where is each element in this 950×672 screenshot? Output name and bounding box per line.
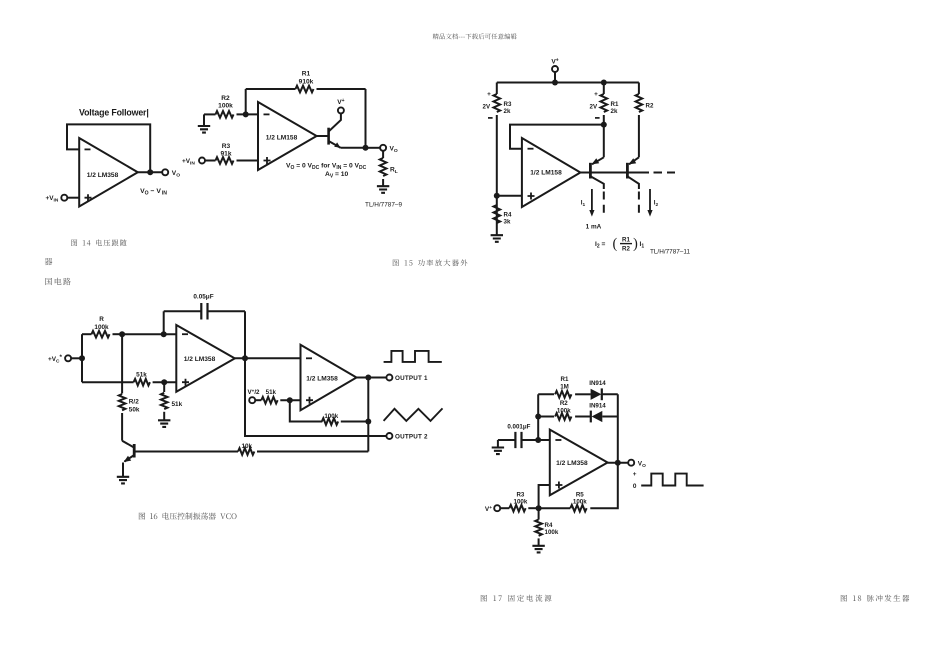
wire VC to divider vertical xyxy=(71,357,82,359)
node rail/R1 junction xyxy=(601,80,607,86)
wire node to inverting input xyxy=(122,333,176,335)
svg-text:TL/H/7787–9: TL/H/7787–9 xyxy=(365,202,402,209)
ground (R4) xyxy=(491,235,503,242)
wire left vertical to inverting node xyxy=(245,89,247,114)
wire + input jog xyxy=(539,485,550,508)
wire cap-left vertical to inverting node xyxy=(163,311,165,334)
caption fig15 图 15 功率放大器外 xyxy=(393,259,468,266)
transistor Q2 (PNP) xyxy=(589,163,592,179)
node output junction xyxy=(615,460,621,466)
svg-text:R3: R3 xyxy=(504,101,512,108)
svg-text:2k: 2k xyxy=(611,108,618,115)
wire feedback to inverting input xyxy=(510,125,604,149)
output terminal VO xyxy=(380,145,386,151)
wire output xyxy=(608,462,629,464)
ground (R2) xyxy=(198,126,210,133)
svg-text:R2: R2 xyxy=(622,246,630,253)
svg-text:100k: 100k xyxy=(573,499,587,506)
op-amp U5 1/2 LM358 (comparator) xyxy=(301,345,357,410)
svg-text:1/2 LM358: 1/2 LM358 xyxy=(184,356,216,363)
svg-text:0.001μF: 0.001μF xyxy=(507,424,530,431)
svg-text:100k: 100k xyxy=(94,324,109,331)
wire cap-right vertical to output xyxy=(244,311,246,358)
output terminal OUTPUT 2 xyxy=(386,433,392,439)
svg-text:100k: 100k xyxy=(218,102,233,109)
caption fig14 line3 国电路 xyxy=(45,278,70,285)
transistor Q1 (NPN buffer) xyxy=(317,135,329,137)
node non-inverting junction xyxy=(494,193,500,199)
node comparator + junction xyxy=(287,397,293,403)
wire V+ to rail xyxy=(554,72,556,83)
wire R1 to feedback node xyxy=(603,115,605,125)
wire cap right xyxy=(208,310,246,312)
wire output to R5 vertical xyxy=(590,463,618,509)
header text 精品文档---下载后可任意编辑 xyxy=(433,33,517,39)
svg-text:3k: 3k xyxy=(504,219,511,226)
svg-text:OUTPUT 2: OUTPUT 2 xyxy=(395,434,428,441)
svg-text:R5: R5 xyxy=(576,492,584,499)
svg-text:+: + xyxy=(633,471,637,478)
svg-text:R/2: R/2 xyxy=(129,399,139,406)
svg-text:100k: 100k xyxy=(324,413,338,420)
wire feedback loop xyxy=(67,124,150,172)
resistor R1 2k xyxy=(603,83,605,95)
wire output1 to output2 vertical xyxy=(245,358,386,436)
caption fig14 line2 器 xyxy=(45,258,53,265)
svg-text:Voltage Follower|: Voltage Follower| xyxy=(79,107,149,117)
resistor R3 2k xyxy=(496,83,498,95)
arrow I2 xyxy=(649,189,651,212)
svg-text:R1: R1 xyxy=(302,71,311,78)
svg-text:R3: R3 xyxy=(222,143,231,150)
svg-text:R1: R1 xyxy=(611,101,619,108)
ground (RL) xyxy=(377,186,389,193)
wire dashed collector I2 xyxy=(638,192,640,218)
wire integrator output xyxy=(235,357,301,359)
node + input junction xyxy=(161,379,167,385)
op-amp U3 1/2 LM158 xyxy=(522,138,581,207)
resistor R4 3k xyxy=(494,205,501,223)
svg-text:1/2 LM158: 1/2 LM158 xyxy=(266,134,298,141)
svg-text:V+/2: V+/2 xyxy=(248,388,261,396)
node feedback junction xyxy=(601,122,607,128)
resistor R4 100k xyxy=(538,508,540,519)
wire to non-inverting input xyxy=(497,195,522,197)
svg-text:R2: R2 xyxy=(221,95,230,102)
wire feedback right vertical xyxy=(365,89,367,148)
svg-text:IN914: IN914 xyxy=(589,402,606,409)
svg-text:2k: 2k xyxy=(504,108,511,115)
wire right feedback vertical xyxy=(617,394,619,462)
wire to inverting input xyxy=(538,439,550,441)
svg-text:R4: R4 xyxy=(545,522,553,529)
wire emitter to output node xyxy=(341,147,366,149)
caption fig16 图 16 电压控制振荡器 VCO xyxy=(139,512,237,519)
svg-text:50k: 50k xyxy=(129,407,140,414)
node integrator output junction xyxy=(242,355,248,361)
resistor 10k (base drive) xyxy=(134,451,238,453)
wire left rail down xyxy=(496,115,498,235)
svg-text:2V: 2V xyxy=(483,103,491,110)
ground (R4) xyxy=(532,546,544,553)
wire 10k to output1 vertical xyxy=(367,378,369,452)
wire feedback top xyxy=(246,88,296,90)
op-amp U2 1/2 LM158 xyxy=(258,102,317,170)
node R3/R4/R5 junction xyxy=(536,505,542,511)
resistor R2 xyxy=(638,83,640,95)
wire divider vertical xyxy=(81,334,83,382)
wire input to op-amp xyxy=(67,197,79,199)
svg-text:R: R xyxy=(99,316,104,323)
transistor Q4 (NPN switch) xyxy=(122,441,134,448)
resistor R/2 50k xyxy=(121,334,123,393)
svg-text:+: + xyxy=(594,91,598,98)
node R output junction xyxy=(119,331,125,337)
resistor RL load xyxy=(382,151,384,158)
svg-text:+: + xyxy=(487,91,491,98)
transistor Q3 (PNP) xyxy=(626,163,629,179)
svg-text:1/2 LM358: 1/2 LM358 xyxy=(306,375,338,382)
svg-text:0.05μF: 0.05μF xyxy=(193,293,213,300)
svg-text:1 mA: 1 mA xyxy=(586,224,602,231)
svg-text:IN914: IN914 xyxy=(589,380,606,387)
op-amp U4 1/2 LM358 (integrator) xyxy=(176,325,235,392)
node output junction xyxy=(363,145,369,151)
svg-text:1/2 LM158: 1/2 LM158 xyxy=(530,170,562,177)
wire left feedback vertical xyxy=(537,394,539,440)
wire R2 to ground xyxy=(203,114,205,126)
svg-text:R1: R1 xyxy=(622,236,630,243)
node inverting input junction xyxy=(243,111,249,117)
wire cap left xyxy=(164,310,202,312)
op-amp U6 1/2 LM358 xyxy=(550,430,608,496)
wire dashed base line xyxy=(654,172,676,174)
svg-text:2V: 2V xyxy=(590,103,598,110)
svg-text:910k: 910k xyxy=(299,78,314,85)
node rail/V+ junction xyxy=(552,80,558,86)
svg-text:R4: R4 xyxy=(504,212,512,219)
waveform triangle wave xyxy=(384,408,443,421)
node inverting input junction xyxy=(535,437,541,443)
svg-text:1/2 LM358: 1/2 LM358 xyxy=(556,460,588,467)
output terminal VO xyxy=(628,460,634,466)
svg-text:R3: R3 xyxy=(516,492,524,499)
svg-text:R2: R2 xyxy=(560,400,568,407)
wire cap to ground xyxy=(497,440,499,448)
svg-text:R1: R1 xyxy=(561,376,569,383)
output terminal VO xyxy=(162,169,168,175)
svg-text:91k: 91k xyxy=(220,151,231,158)
resistor 100k (hysteresis) xyxy=(290,400,323,421)
svg-text:IN: IN xyxy=(162,191,167,197)
op-amp U1 1/2 LM358 xyxy=(79,138,138,207)
wire dashed collector I1 xyxy=(603,192,605,218)
svg-text:1/2 LM358: 1/2 LM358 xyxy=(87,172,119,179)
svg-text:100k: 100k xyxy=(557,407,571,414)
resistor 51k (to ground) xyxy=(163,382,165,392)
wire output xyxy=(138,171,162,173)
caption fig18 图 18 脉冲发生器 xyxy=(841,595,909,602)
wire op-amp output to bases xyxy=(580,172,649,174)
arrow I1 xyxy=(591,189,593,212)
caption fig17 图 17 固定电流源 xyxy=(481,595,552,602)
ground (Q4 emitter) xyxy=(117,477,129,484)
wire comparator output xyxy=(357,377,387,379)
svg-text:OUTPUT 1: OUTPUT 1 xyxy=(395,375,428,382)
svg-text:TL/H/7787–11: TL/H/7787–11 xyxy=(650,248,690,255)
ground (C2) xyxy=(492,448,504,455)
ground (51k) xyxy=(158,420,170,427)
svg-text:51k: 51k xyxy=(266,389,277,396)
svg-text:R2: R2 xyxy=(646,103,654,110)
svg-text:100k: 100k xyxy=(545,529,559,536)
wire top rail xyxy=(497,82,639,84)
node inverting input junction xyxy=(161,331,167,337)
waveform square wave xyxy=(384,351,442,362)
wire to output terminal xyxy=(366,147,381,149)
svg-text:): ) xyxy=(633,236,638,252)
svg-text:(: ( xyxy=(613,236,618,252)
node output junction xyxy=(147,169,153,175)
svg-text:0: 0 xyxy=(633,483,637,490)
output terminal OUTPUT 1 xyxy=(386,375,392,381)
caption fig14 line1 图 14 电压跟随 xyxy=(71,239,126,246)
svg-text:51k: 51k xyxy=(172,401,183,408)
